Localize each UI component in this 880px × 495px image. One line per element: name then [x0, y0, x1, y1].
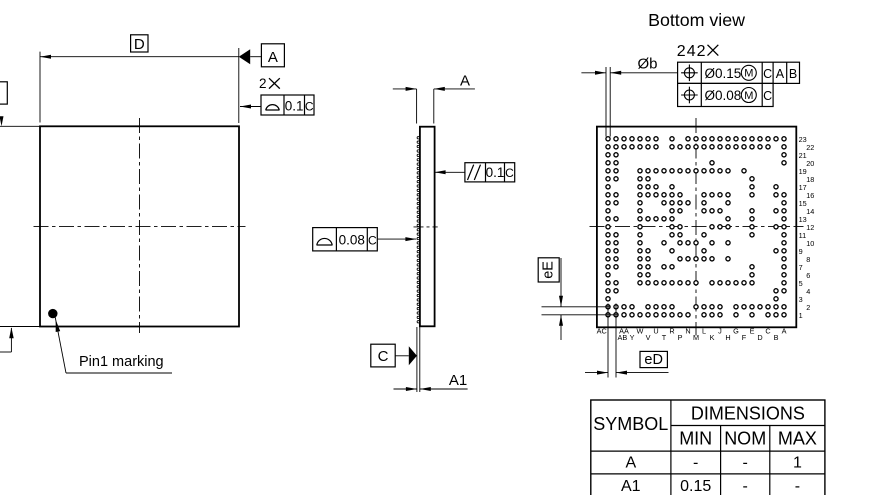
svg-text:M: M: [744, 68, 753, 80]
svg-text:D: D: [757, 333, 762, 342]
svg-text:20: 20: [806, 159, 814, 168]
svg-text:5: 5: [799, 279, 803, 288]
eD dimension: extension lines through ball cols 1-2: [607, 304, 609, 378]
dimension D: extension lines: [39, 52, 41, 123]
svg-text:2: 2: [806, 303, 810, 312]
svg-text:1: 1: [793, 454, 802, 471]
svg-text:-: -: [743, 478, 748, 495]
svg-text:P: P: [678, 333, 683, 342]
svg-text:C: C: [763, 67, 772, 81]
diameter b dimension line and arrows: [581, 72, 606, 74]
leader arrow from profile frame to D extension line: [240, 106, 261, 108]
svg-text:19: 19: [799, 167, 807, 176]
svg-text:A: A: [268, 49, 278, 66]
svg-text:T: T: [662, 333, 667, 342]
svg-text:H: H: [725, 333, 730, 342]
dimension D: dimension line with arrows: [40, 56, 239, 58]
svg-text:Ø0.08: Ø0.08: [705, 88, 742, 103]
svg-text:D: D: [134, 36, 145, 53]
svg-text:V: V: [646, 333, 651, 342]
svg-text:AC: AC: [597, 327, 607, 336]
svg-text:C: C: [505, 166, 514, 180]
svg-text:U: U: [653, 327, 658, 336]
svg-text:C: C: [368, 233, 377, 247]
svg-text:MIN: MIN: [679, 429, 712, 449]
svg-text:16: 16: [806, 191, 814, 200]
top view: vertical centerline: [139, 118, 141, 333]
top view: package body outline: [40, 126, 239, 326]
svg-text:C: C: [765, 327, 770, 336]
svg-text:DIMENSIONS: DIMENSIONS: [691, 404, 805, 424]
ball grid array: 242 balls: [606, 137, 786, 317]
bottom view: package outline: [597, 127, 796, 328]
svg-text:8: 8: [806, 255, 810, 264]
svg-text:Bottom view: Bottom view: [648, 10, 745, 30]
dimension A: dimension line, outside arrows: [393, 88, 417, 90]
svg-text:A1: A1: [621, 478, 641, 495]
svg-text:L: L: [702, 327, 706, 336]
svg-text:0.1: 0.1: [285, 99, 304, 114]
side view: body outline: [420, 127, 435, 327]
svg-text:B: B: [774, 333, 779, 342]
eD dimension: dimension line and arrows: [585, 372, 608, 374]
svg-text:Pin1 marking: Pin1 marking: [79, 354, 164, 370]
svg-text:-: -: [743, 454, 748, 471]
svg-text:7: 7: [799, 263, 803, 272]
svg-text:A: A: [782, 327, 787, 336]
profile tolerance frame 0.08 C (side): [313, 228, 378, 251]
svg-text:M: M: [744, 90, 753, 102]
position tolerance frame dia 0.15 M | C | A | B: [678, 62, 800, 83]
svg-text:10: 10: [806, 239, 814, 248]
svg-text:W: W: [637, 327, 644, 336]
bottom view: vertical centerline: [695, 118, 697, 336]
datum A: label box: [261, 44, 284, 67]
svg-text:22: 22: [806, 143, 814, 152]
pin1 leader line with arrowhead: [55, 317, 66, 373]
svg-text:0.08: 0.08: [339, 232, 365, 247]
pin1 marking dot: [48, 309, 57, 318]
E dimension: top extension line and arrow: [0, 125, 40, 127]
bottom view: horizontal centerline: [590, 226, 804, 228]
svg-text:18: 18: [806, 175, 814, 184]
dimension D: label box: [131, 35, 148, 52]
dimensions table: [591, 400, 825, 495]
E dimension label box (cut off at canvas edge): [0, 82, 7, 104]
svg-text:C: C: [305, 100, 314, 114]
eD dimension: label box: [640, 351, 667, 367]
svg-text:E: E: [750, 327, 755, 336]
svg-text:4: 4: [806, 287, 810, 296]
svg-text:0.1: 0.1: [486, 165, 505, 180]
svg-text:MAX: MAX: [778, 429, 817, 449]
svg-text:R: R: [669, 327, 674, 336]
svg-text:17: 17: [799, 183, 807, 192]
svg-text:6: 6: [806, 271, 810, 280]
leader arrow from parallelism frame to body edge: [435, 171, 465, 173]
svg-text:9: 9: [799, 247, 803, 256]
svg-text:2: 2: [259, 76, 267, 91]
svg-text:M: M: [693, 333, 699, 342]
svg-text:B: B: [789, 67, 797, 81]
svg-text:A: A: [625, 454, 636, 471]
datum C: leader and filled triangle: [395, 355, 409, 357]
svg-text:SYMBOL: SYMBOL: [593, 414, 668, 434]
datum C: label box: [371, 344, 395, 367]
svg-text:K: K: [710, 333, 715, 342]
svg-text:A: A: [460, 73, 470, 90]
position tolerance frame dia 0.08 M | C: [678, 83, 774, 106]
svg-text:12: 12: [806, 223, 814, 232]
svg-text:14: 14: [806, 207, 814, 216]
svg-text:13: 13: [799, 215, 807, 224]
svg-text:A1: A1: [449, 372, 467, 389]
ball diameter tangent lines: [605, 67, 607, 137]
svg-text:F: F: [742, 333, 747, 342]
svg-text:Ø0.15: Ø0.15: [705, 66, 742, 81]
profile-of-surface tolerance frame 0.1 C: [261, 95, 314, 115]
svg-text:-: -: [795, 478, 800, 495]
dimension A1: dimension line, outside arrows: [394, 388, 417, 390]
seating plane extension lines: [416, 327, 418, 392]
svg-text:C: C: [763, 89, 772, 103]
svg-text:1: 1: [799, 311, 803, 320]
svg-text:21: 21: [799, 151, 807, 160]
svg-text:0.15: 0.15: [680, 478, 711, 495]
leader arrow from 0.08 frame to ball row: [377, 238, 416, 240]
dimension A: extension lines: [416, 89, 418, 124]
eE dimension: label box (rotated text): [538, 258, 559, 282]
svg-text:eE: eE: [541, 261, 557, 279]
top view: horizontal centerline: [34, 225, 246, 227]
svg-text:C: C: [378, 348, 389, 365]
svg-text:J: J: [718, 327, 722, 336]
svg-text:G: G: [733, 327, 739, 336]
side view: ball profile dots: [417, 137, 419, 139]
svg-text:242: 242: [677, 43, 707, 60]
svg-text:N: N: [685, 327, 690, 336]
E dimension: bottom jogged arrow pointing up: [10, 328, 12, 352]
svg-text:AB: AB: [618, 333, 628, 342]
svg-text:A: A: [776, 67, 785, 81]
svg-text:15: 15: [799, 199, 807, 208]
eE dimension: extension lines through ball rows 1-2: [542, 306, 611, 308]
svg-text:11: 11: [799, 231, 807, 240]
svg-text:-: -: [693, 454, 698, 471]
svg-text:Øb: Øb: [638, 56, 658, 73]
svg-text:eD: eD: [644, 352, 663, 368]
svg-text:3: 3: [799, 295, 803, 304]
eE dimension: arrows: [560, 258, 562, 307]
datum A: filled triangle on extension line: [239, 49, 250, 64]
parallelism tolerance frame // 0.1 C: [465, 163, 515, 182]
svg-text:NOM: NOM: [724, 429, 766, 449]
svg-text:Y: Y: [630, 333, 635, 342]
side view: horizontal centerline tick: [414, 226, 438, 228]
svg-text:23: 23: [799, 135, 807, 144]
E dimension: bottom extension line: [0, 326, 40, 328]
